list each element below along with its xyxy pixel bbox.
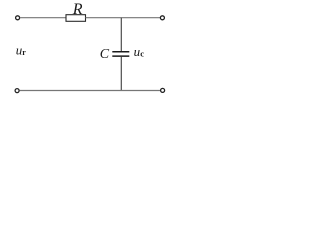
wire capacitor branch lower	[120, 57, 122, 91]
wire top rail left segment	[20, 17, 66, 19]
wire top rail right segment	[86, 17, 161, 19]
svg-text:r: r	[22, 48, 26, 57]
background	[0, 0, 178, 96]
terminal bottom-left	[15, 89, 19, 93]
terminal top-left	[16, 16, 20, 20]
svg-text:R: R	[72, 1, 83, 18]
terminal top-right	[160, 16, 164, 20]
capacitor C plates	[112, 51, 129, 53]
resistor R	[66, 15, 86, 22]
svg-text:c: c	[140, 49, 144, 59]
svg-text:C: C	[100, 47, 110, 62]
wire capacitor branch upper	[120, 18, 122, 52]
wire bottom rail	[20, 90, 161, 92]
terminal bottom-right	[161, 88, 165, 92]
